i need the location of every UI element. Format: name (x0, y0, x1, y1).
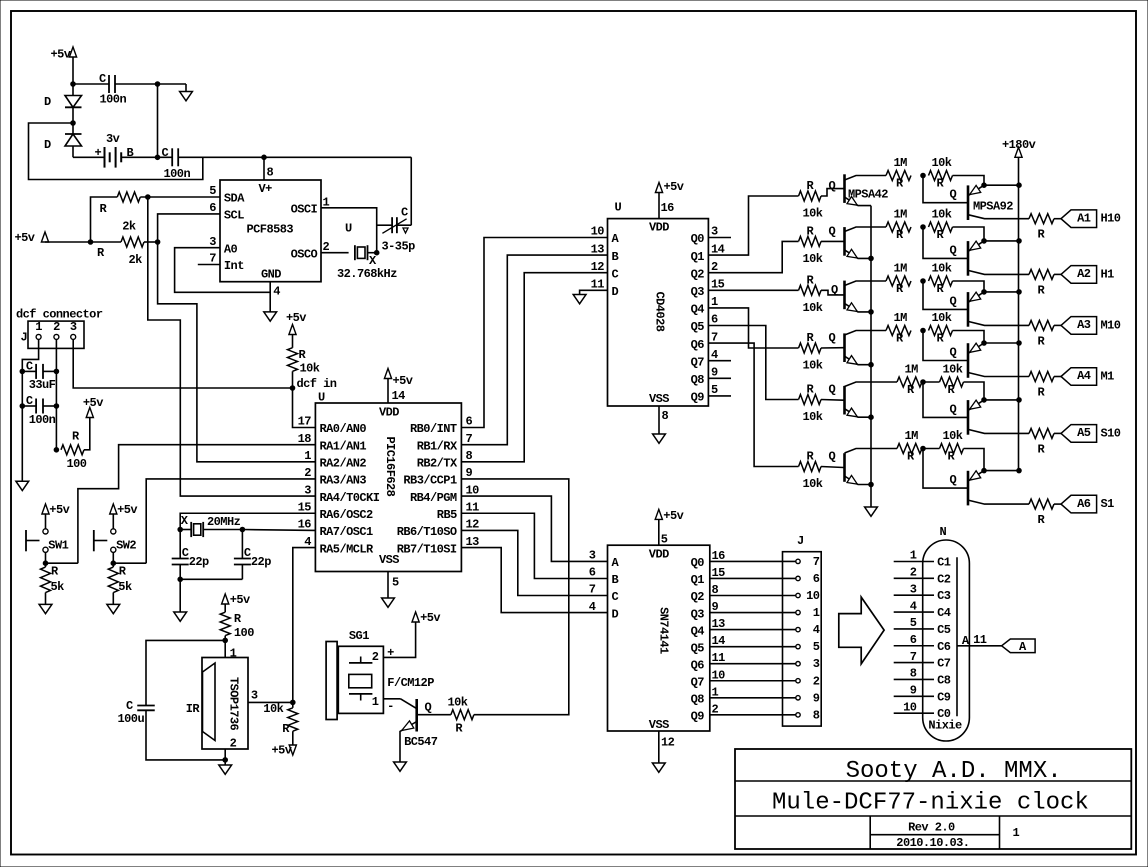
svg-text:22p: 22p (251, 555, 271, 569)
svg-text:8: 8 (466, 449, 473, 463)
svg-text:C: C (162, 146, 169, 160)
svg-text:VDD: VDD (649, 548, 669, 562)
svg-text:5: 5 (813, 640, 820, 654)
svg-text:3: 3 (70, 320, 77, 334)
svg-text:C4: C4 (937, 606, 951, 620)
svg-text:4: 4 (273, 284, 280, 298)
svg-text:PCF8583: PCF8583 (247, 223, 294, 237)
svg-text:32.768kHz: 32.768kHz (337, 267, 397, 281)
svg-text:+5v: +5v (230, 593, 250, 607)
svg-text:SW2: SW2 (116, 539, 136, 553)
svg-text:2: 2 (813, 674, 820, 688)
svg-text:C: C (26, 394, 33, 408)
svg-text:3: 3 (589, 549, 596, 563)
svg-text:C8: C8 (937, 673, 951, 687)
svg-text:8: 8 (813, 708, 820, 722)
svg-text:RB6/T10SO: RB6/T10SO (397, 525, 457, 539)
svg-text:5: 5 (661, 533, 668, 547)
svg-text:3: 3 (711, 225, 718, 239)
svg-text:U: U (318, 391, 325, 405)
svg-text:A4: A4 (1077, 369, 1091, 383)
svg-text:H1: H1 (1101, 267, 1115, 281)
svg-text:4: 4 (910, 599, 917, 613)
svg-text:100n: 100n (100, 93, 127, 107)
svg-text:C9: C9 (937, 690, 951, 704)
svg-text:N: N (940, 525, 947, 539)
svg-text:7: 7 (813, 555, 820, 569)
svg-text:14: 14 (392, 389, 406, 403)
svg-text:100n: 100n (29, 413, 56, 427)
svg-text:Q5: Q5 (691, 641, 705, 655)
svg-text:15: 15 (711, 278, 725, 292)
svg-text:RB3/CCP1: RB3/CCP1 (403, 474, 457, 488)
svg-text:C7: C7 (937, 657, 951, 671)
svg-text:100n: 100n (164, 167, 191, 181)
svg-text:4: 4 (711, 348, 718, 362)
svg-text:RB0/INT: RB0/INT (410, 422, 457, 436)
svg-text:C3: C3 (937, 589, 951, 603)
svg-text:+5v: +5v (663, 509, 683, 523)
svg-text:2: 2 (910, 566, 917, 580)
svg-text:C: C (126, 699, 133, 713)
svg-text:PIC16F628: PIC16F628 (383, 436, 397, 496)
svg-text:D: D (44, 138, 51, 152)
svg-text:1: 1 (711, 295, 718, 309)
svg-text:SW1: SW1 (48, 539, 68, 553)
svg-text:Q8: Q8 (691, 373, 705, 387)
svg-text:12: 12 (591, 260, 605, 274)
svg-text:A5: A5 (1077, 426, 1091, 440)
svg-text:Q2: Q2 (691, 267, 705, 281)
svg-text:Q8: Q8 (691, 693, 705, 707)
svg-text:D: D (612, 285, 619, 299)
svg-text:C2: C2 (937, 572, 951, 586)
svg-text:Rev 2.0: Rev 2.0 (908, 821, 955, 835)
svg-text:10k: 10k (448, 696, 468, 710)
svg-text:SDA: SDA (224, 192, 245, 206)
svg-text:14: 14 (711, 242, 725, 256)
svg-text:3: 3 (209, 235, 216, 249)
svg-text:1: 1 (230, 647, 237, 661)
svg-text:17: 17 (298, 415, 312, 429)
svg-text:+5v: +5v (286, 311, 306, 325)
svg-text:Q5: Q5 (691, 320, 705, 334)
svg-text:C: C (401, 206, 408, 220)
svg-text:5: 5 (711, 383, 718, 397)
svg-text:MPSA92: MPSA92 (973, 200, 1013, 214)
svg-text:U: U (615, 201, 622, 215)
svg-text:+5v: +5v (15, 231, 35, 245)
svg-text:6: 6 (711, 313, 718, 327)
svg-text:1M: 1M (905, 429, 919, 443)
svg-text:8: 8 (910, 667, 917, 681)
svg-text:2: 2 (304, 466, 311, 480)
svg-text:10: 10 (806, 589, 820, 603)
svg-text:-: - (387, 700, 394, 714)
svg-text:12: 12 (661, 736, 675, 750)
svg-text:6: 6 (910, 633, 917, 647)
svg-text:3v: 3v (106, 132, 120, 146)
svg-text:Q: Q (950, 294, 957, 308)
svg-text:10k: 10k (943, 429, 963, 443)
svg-text:10k: 10k (932, 208, 952, 222)
svg-text:+5v: +5v (272, 744, 292, 758)
svg-text:Nixie: Nixie (928, 719, 962, 733)
svg-text:RA5/MCLR: RA5/MCLR (320, 542, 375, 556)
svg-text:Q1: Q1 (691, 573, 705, 587)
svg-text:VDD: VDD (379, 406, 399, 420)
svg-text:10: 10 (466, 483, 480, 497)
svg-text:1: 1 (910, 549, 917, 563)
svg-text:GND: GND (261, 267, 281, 281)
svg-text:M10: M10 (1101, 318, 1121, 332)
svg-text:8: 8 (267, 166, 274, 180)
svg-text:6: 6 (813, 572, 820, 586)
svg-text:33uF: 33uF (29, 378, 56, 392)
svg-text:dcf in: dcf in (297, 377, 337, 391)
svg-text:Q: Q (950, 243, 957, 257)
svg-text:15: 15 (298, 500, 312, 514)
svg-text:+5v: +5v (117, 503, 137, 517)
svg-text:10k: 10k (932, 156, 952, 170)
svg-text:U: U (345, 222, 352, 236)
svg-text:2: 2 (53, 320, 60, 334)
svg-text:1: 1 (35, 320, 42, 334)
svg-text:Q7: Q7 (691, 675, 705, 689)
svg-text:Int: Int (224, 259, 244, 273)
svg-text:RB2/TX: RB2/TX (417, 457, 458, 471)
svg-text:Q: Q (829, 450, 836, 464)
svg-text:16: 16 (661, 201, 675, 215)
svg-text:Q4: Q4 (691, 624, 705, 638)
svg-text:1M: 1M (894, 311, 908, 325)
svg-text:10k: 10k (803, 477, 823, 491)
svg-text:OSCI: OSCI (291, 203, 318, 217)
svg-text:3: 3 (813, 657, 820, 671)
svg-text:RB7/T10SI: RB7/T10SI (397, 542, 457, 556)
svg-text:+5v: +5v (49, 503, 69, 517)
svg-text:Q: Q (950, 473, 957, 487)
svg-text:13: 13 (591, 242, 605, 256)
svg-text:IR: IR (186, 702, 201, 716)
svg-text:RA0/AN0: RA0/AN0 (320, 422, 367, 436)
svg-text:RA4/T0CKI: RA4/T0CKI (320, 491, 380, 505)
svg-text:Q2: Q2 (691, 590, 705, 604)
svg-text:RB5: RB5 (437, 508, 457, 522)
svg-text:H10: H10 (1101, 212, 1121, 226)
svg-text:J: J (21, 331, 28, 345)
svg-text:Sooty A.D. MMX.: Sooty A.D. MMX. (846, 758, 1062, 785)
svg-text:V+: V+ (259, 182, 273, 196)
svg-text:13: 13 (466, 535, 480, 549)
svg-text:7: 7 (910, 650, 917, 664)
svg-text:10k: 10k (300, 361, 320, 375)
svg-text:RA6/OSC2: RA6/OSC2 (320, 508, 374, 522)
svg-text:B: B (612, 573, 619, 587)
svg-text:VSS: VSS (649, 392, 669, 406)
svg-text:RA3/AN3: RA3/AN3 (320, 474, 367, 488)
svg-text:M1: M1 (1101, 370, 1115, 384)
svg-text:F/CM12P: F/CM12P (387, 676, 434, 690)
svg-text:1: 1 (813, 606, 820, 620)
svg-text:Q: Q (829, 224, 836, 238)
svg-text:6: 6 (466, 415, 473, 429)
svg-text:C6: C6 (937, 640, 951, 654)
svg-text:1: 1 (372, 695, 379, 709)
svg-text:RA1/AN1: RA1/AN1 (320, 439, 367, 453)
svg-text:C5: C5 (937, 623, 951, 637)
svg-text:1: 1 (304, 449, 311, 463)
svg-text:SG1: SG1 (349, 629, 369, 643)
svg-text:A0: A0 (224, 242, 238, 256)
svg-text:2k: 2k (122, 220, 136, 234)
svg-text:6: 6 (589, 566, 596, 580)
svg-text:Q: Q (425, 701, 432, 715)
svg-text:+5v: +5v (420, 611, 440, 625)
svg-text:10k: 10k (803, 359, 823, 373)
svg-text:10: 10 (591, 225, 605, 239)
svg-text:4: 4 (813, 623, 820, 637)
svg-text:+: + (95, 146, 102, 160)
svg-text:7: 7 (466, 432, 473, 446)
svg-text:10k: 10k (263, 702, 283, 716)
svg-text:5: 5 (209, 184, 216, 198)
svg-text:7: 7 (711, 330, 718, 344)
svg-text:VSS: VSS (649, 718, 669, 732)
svg-text:100u: 100u (118, 712, 145, 726)
svg-text:+5v: +5v (664, 180, 684, 194)
svg-text:10k: 10k (803, 207, 823, 221)
svg-text:C: C (182, 546, 189, 560)
svg-text:11: 11 (466, 500, 480, 514)
svg-text:A6: A6 (1077, 497, 1091, 511)
svg-text:5k: 5k (118, 580, 132, 594)
svg-text:3: 3 (304, 483, 311, 497)
svg-text:Q9: Q9 (691, 710, 705, 724)
svg-text:D: D (44, 95, 51, 109)
svg-text:5k: 5k (51, 580, 65, 594)
svg-text:2k: 2k (129, 253, 143, 267)
svg-text:11: 11 (973, 633, 987, 647)
svg-text:RA2/AN2: RA2/AN2 (320, 457, 367, 471)
svg-text:Q: Q (950, 188, 957, 202)
svg-text:10k: 10k (932, 262, 952, 276)
svg-text:Q3: Q3 (691, 607, 705, 621)
svg-text:MPSA42: MPSA42 (848, 188, 888, 202)
svg-text:4: 4 (589, 600, 596, 614)
svg-text:Q6: Q6 (691, 338, 705, 352)
svg-text:1M: 1M (894, 156, 908, 170)
svg-text:6: 6 (209, 201, 216, 215)
svg-text:3: 3 (910, 582, 917, 596)
svg-text:10k: 10k (803, 252, 823, 266)
svg-text:RA7/OSC1: RA7/OSC1 (320, 525, 374, 539)
svg-text:Q6: Q6 (691, 658, 705, 672)
svg-text:Q: Q (950, 402, 957, 416)
svg-text:8: 8 (662, 409, 669, 423)
svg-text:2: 2 (711, 260, 718, 274)
svg-text:J: J (797, 534, 804, 548)
svg-text:B: B (612, 250, 619, 264)
svg-text:Q4: Q4 (691, 303, 705, 317)
svg-text:OSCO: OSCO (291, 247, 318, 261)
svg-text:12: 12 (466, 518, 480, 532)
svg-text:3-35p: 3-35p (382, 240, 416, 254)
svg-text:CD4028: CD4028 (653, 291, 667, 331)
svg-text:Q: Q (829, 179, 836, 193)
svg-text:Mule-DCF77-nixie clock: Mule-DCF77-nixie clock (772, 790, 1089, 817)
svg-text:C: C (26, 360, 33, 374)
svg-text:1: 1 (1013, 826, 1020, 840)
svg-text:BC547: BC547 (404, 735, 438, 749)
svg-text:SN74141: SN74141 (657, 607, 671, 654)
svg-text:9: 9 (813, 691, 820, 705)
svg-text:100: 100 (234, 626, 254, 640)
svg-text:9: 9 (466, 466, 473, 480)
svg-text:D: D (612, 607, 619, 621)
svg-text:Q3: Q3 (691, 285, 705, 299)
svg-text:Q0: Q0 (691, 556, 705, 570)
svg-text:Q7: Q7 (691, 355, 705, 369)
svg-text:RB1/RX: RB1/RX (417, 439, 458, 453)
svg-text:5: 5 (910, 616, 917, 630)
svg-text:18: 18 (298, 432, 312, 446)
svg-text:+5v: +5v (393, 374, 413, 388)
svg-text:5: 5 (392, 576, 399, 590)
svg-text:10k: 10k (943, 363, 963, 377)
svg-text:C1: C1 (937, 556, 951, 570)
svg-text:S1: S1 (1101, 497, 1115, 511)
svg-text:10: 10 (903, 700, 917, 714)
svg-text:Q: Q (829, 383, 836, 397)
svg-text:C: C (612, 590, 619, 604)
svg-text:A3: A3 (1077, 318, 1091, 332)
svg-text:Q: Q (829, 331, 836, 345)
svg-text:9: 9 (711, 366, 718, 380)
svg-text:10k: 10k (803, 410, 823, 424)
svg-text:10k: 10k (932, 311, 952, 325)
svg-text:A1: A1 (1077, 211, 1091, 225)
svg-text:3: 3 (251, 689, 258, 703)
svg-text:C: C (99, 72, 106, 86)
svg-text:2: 2 (230, 737, 237, 751)
svg-text:20MHz: 20MHz (207, 515, 241, 529)
svg-text:RB4/PGM: RB4/PGM (410, 491, 457, 505)
svg-text:TSOP1736: TSOP1736 (226, 677, 240, 731)
svg-text:+5v: +5v (51, 48, 71, 62)
svg-text:7: 7 (589, 583, 596, 597)
svg-text:Q9: Q9 (691, 391, 705, 405)
svg-text:1M: 1M (894, 262, 908, 276)
svg-text:VDD: VDD (649, 220, 669, 234)
svg-text:Q1: Q1 (691, 250, 705, 264)
svg-text:9: 9 (910, 684, 917, 698)
svg-text:SCL: SCL (224, 209, 244, 223)
svg-text:7: 7 (209, 252, 216, 266)
svg-text:4: 4 (304, 535, 311, 549)
svg-text:+5v: +5v (83, 396, 103, 410)
svg-text:1M: 1M (905, 363, 919, 377)
svg-text:Q: Q (950, 346, 957, 360)
svg-text:22p: 22p (189, 555, 209, 569)
svg-text:A2: A2 (1077, 267, 1091, 281)
svg-text:Q0: Q0 (691, 232, 705, 246)
svg-text:S10: S10 (1101, 426, 1121, 440)
svg-text:11: 11 (591, 278, 605, 292)
svg-text:2: 2 (372, 650, 379, 664)
svg-text:100: 100 (67, 457, 87, 471)
svg-text:2010.10.03.: 2010.10.03. (896, 836, 969, 850)
svg-text:1M: 1M (894, 208, 908, 222)
svg-text:C: C (244, 546, 251, 560)
svg-text:10k: 10k (803, 301, 823, 315)
svg-text:C: C (612, 267, 619, 281)
